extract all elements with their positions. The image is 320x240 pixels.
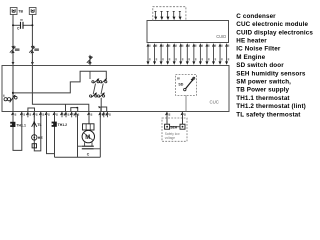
svg-text:SD switch door: SD switch door (236, 62, 284, 69)
CUID-CUC interconnect pin 11 (212, 43, 216, 65)
CUID top connector pin 3 (166, 12, 169, 21)
thermal fuse on HE branch (32, 144, 36, 148)
display electronics CUID box (147, 21, 229, 43)
svg-text:SEH: SEH (170, 125, 177, 129)
CUID-CUC interconnect pin 9 (199, 43, 203, 65)
svg-text:SEH humidity sensors: SEH humidity sensors (236, 70, 306, 77)
CUC bottom pin at x=54.5 (53, 112, 58, 118)
node junction on wire L (12, 92, 14, 94)
wire motor to capacitor stubs (85, 142, 92, 146)
wire N supply from TB2 down (31, 15, 33, 47)
node on block 2 (76, 107, 78, 109)
CUC bottom pin at x=40.8 (39, 112, 44, 118)
CUC bottom pin at x=100.3 (98, 112, 103, 118)
svg-text:TH1.2: TH1.2 (58, 123, 68, 127)
CUC bottom pin at x=34.3 (32, 112, 37, 118)
wire stub to contact K1 (89, 71, 91, 79)
CUC bottom pin at x=71.7 (70, 112, 75, 118)
safety thermostat TL (32, 121, 37, 127)
CUID-CUC interconnect pin 7 (186, 43, 190, 65)
CUID top connector pin 4 (173, 12, 176, 21)
terminal block TB socket 2 (29, 8, 36, 15)
svg-text:TH1.1 thermostat: TH1.1 thermostat (236, 95, 290, 102)
svg-text:CUC: CUC (210, 100, 219, 105)
connector block on bottom edge 2 (71, 108, 78, 112)
wire TH1.2 leg to bottom rail (54, 114, 56, 157)
CUC bottom pin at x=89 (87, 112, 92, 118)
CUID top connector pin 5 (179, 12, 182, 21)
svg-text:SD: SD (178, 83, 183, 87)
svg-text:TB Power supply: TB Power supply (236, 87, 289, 94)
wire between SEH electrodes (170, 126, 180, 128)
node N-C junction (31, 24, 33, 26)
CUC bottom pin at x=27.9 (26, 112, 31, 118)
legend text block (236, 13, 313, 118)
dashed box SEH safety low voltage (162, 118, 187, 141)
CUC bottom pin at x=182.5 (181, 112, 186, 118)
dashed connector frame above CUID (153, 7, 186, 21)
capacitor C across supply lines (13, 19, 32, 29)
connector pair on wire N (29, 45, 39, 55)
heater HE element (32, 135, 37, 140)
svg-text:CUID display electronics: CUID display electronics (236, 29, 313, 36)
svg-text:CUC electronic module: CUC electronic module (236, 21, 308, 28)
wire N inside CUC down then right (32, 66, 88, 112)
svg-text:CUID: CUID (216, 34, 226, 39)
svg-text:HE: HE (38, 136, 44, 140)
CUC bottom pin at x=21.8 (20, 112, 25, 118)
svg-text:voltage: voltage (165, 136, 176, 140)
thermostat TH1.2 (52, 122, 57, 127)
wire loop TL-HE branch (34, 114, 41, 151)
wire cluster down to bottom edge (100, 98, 102, 112)
wire stub branch to TH1.2 return (47, 114, 55, 154)
CUID top connector pin 2 (160, 12, 163, 21)
CUID-CUC interconnect pin 1 (147, 43, 151, 65)
stepped wire from L junction to switch cluster (13, 71, 106, 93)
relay contact K4 (97, 92, 104, 97)
CUC bottom pin at x=167 (165, 112, 170, 118)
svg-text:M Engine: M Engine (236, 54, 265, 61)
capacitor C motor run (78, 146, 101, 149)
wire cluster link left (93, 84, 95, 95)
wire L supply from TB1 down (12, 15, 14, 47)
wire cluster link right (101, 84, 103, 95)
switch SD contact (177, 77, 195, 91)
thermostat TH1.1 (10, 122, 15, 127)
wire motor centre feed (88, 114, 90, 124)
relay contact K2 (100, 78, 108, 83)
svg-text:TL safety thermostat: TL safety thermostat (236, 111, 301, 118)
wire N into CUC with pin (31, 54, 34, 65)
CUC bottom pin at x=107.5 (106, 112, 111, 118)
relay contact K3 (90, 92, 98, 97)
wire SD to CUC bottom edge (185, 95, 187, 111)
CUID-CUC interconnect pin 12 (219, 43, 223, 65)
svg-text:TH1.2 thermostat (lint): TH1.2 thermostat (lint) (236, 103, 306, 110)
CUC bottom pin at x=103.8 (102, 112, 107, 118)
wire bottom rail (55, 156, 101, 158)
terminal block TB socket 1 (10, 8, 17, 15)
CUID-CUC interconnect pin 5 (173, 43, 177, 65)
CUID-CUC interconnect pin 3 (160, 43, 164, 65)
switch door SD dashed box (176, 75, 197, 96)
svg-text:IC Noise Filter: IC Noise Filter (236, 46, 281, 53)
CUID-CUC interconnect pin 13 (225, 43, 229, 65)
motor M engine (82, 130, 94, 142)
svg-text:C condenser: C condenser (236, 13, 276, 20)
wire L into CUC with pin (12, 54, 15, 65)
wire L inside CUC down to bottom edge (12, 66, 14, 112)
electronic module CUC box (2, 66, 229, 112)
CUC bottom pin at x=46.5 (45, 112, 50, 118)
connector hook on bottom edge right (98, 106, 106, 112)
wire drop to bottom edge at 65.5 (65, 104, 67, 111)
CUID-CUC interconnect pin 8 (192, 43, 196, 65)
CUID-CUC interconnect pin 10 (205, 43, 209, 65)
CUC bottom pin at x=66 (64, 112, 69, 118)
CUID-CUC interconnect pin 2 (153, 43, 157, 65)
connector block on bottom edge (noise filter IC) (28, 108, 35, 112)
wire motor left leg (77, 114, 79, 157)
wire SEH left lead (166, 114, 168, 124)
CUID top connector pin 1 (154, 12, 157, 21)
CUC bottom pin at x=75.9 (74, 112, 79, 118)
svg-text:SM power switch,: SM power switch, (236, 79, 291, 86)
svg-text:TH1.1: TH1.1 (16, 123, 26, 127)
connector pair entering CUC near switch cluster (87, 55, 93, 65)
CUID-CUC interconnect pin 4 (166, 43, 170, 65)
CUC bottom pin at x=62 (60, 112, 65, 118)
CUID-CUC interconnect pin 6 (179, 43, 183, 65)
wire motor right leg (99, 114, 101, 157)
connector pair on wire L (10, 45, 20, 55)
svg-text:TB: TB (18, 9, 23, 13)
humidity sensor SEH electrode left (165, 124, 170, 129)
wire loop TH1.1 branch (13, 114, 22, 150)
node L-C junction (12, 24, 14, 26)
CUC bottom pin at x=13 (11, 112, 16, 118)
svg-text:HE heater: HE heater (236, 38, 267, 45)
relay contact K1 (92, 78, 99, 83)
motor thermal protector (83, 124, 95, 130)
humidity sensor SEH electrode right (180, 124, 185, 129)
wire SEH right lead (182, 114, 184, 124)
power switch SM (3, 95, 17, 103)
